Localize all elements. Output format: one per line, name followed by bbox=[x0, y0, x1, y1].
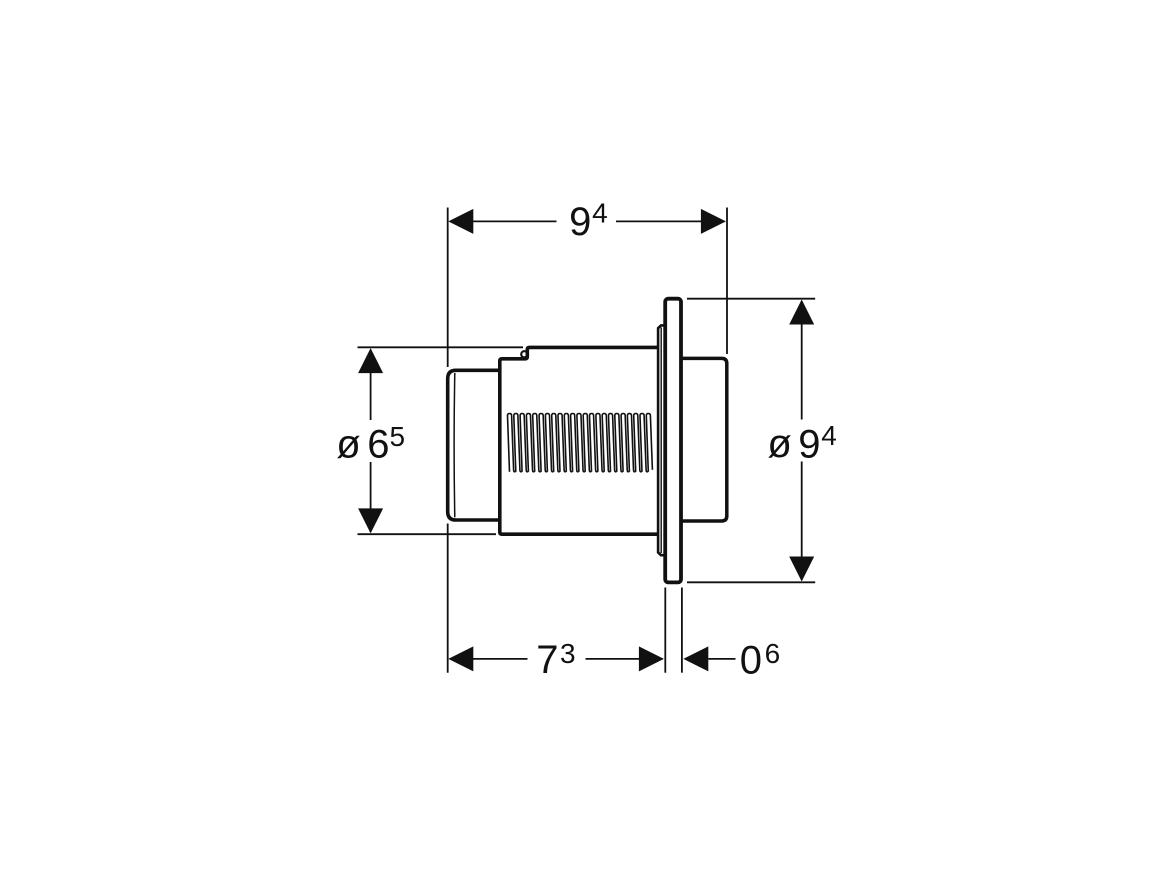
push button cap bbox=[448, 370, 500, 520]
svg-text:9: 9 bbox=[569, 200, 591, 244]
dim dia94 top extension line bbox=[687, 298, 815, 300]
dim 73 line bbox=[450, 658, 528, 660]
wall flange plate bbox=[665, 299, 681, 583]
svg-text:9: 9 bbox=[798, 422, 820, 466]
dim 94 left arrow bbox=[448, 209, 473, 234]
svg-text:6: 6 bbox=[765, 638, 781, 669]
seal gasket inner edge bbox=[660, 328, 662, 554]
button cap face edge bbox=[453, 373, 456, 517]
svg-text:4: 4 bbox=[821, 420, 837, 451]
dim dia65 top extension line bbox=[358, 346, 524, 348]
dim 73 left arrow bbox=[448, 646, 473, 671]
svg-text:ø: ø bbox=[336, 423, 360, 467]
dim 73 right arrow bbox=[639, 646, 664, 671]
svg-text:3: 3 bbox=[560, 638, 576, 669]
dim 06 right extension line bbox=[681, 588, 683, 673]
dim dia65 down arrow bbox=[358, 508, 383, 533]
dim dia65 line bbox=[370, 350, 372, 420]
svg-text:4: 4 bbox=[592, 198, 608, 229]
dim 94 left extension line bbox=[447, 208, 449, 368]
svg-text:ø: ø bbox=[767, 422, 791, 466]
valve body bbox=[500, 347, 658, 534]
dim 94 right arrow bbox=[701, 209, 726, 234]
dim dia94 line bbox=[801, 301, 803, 420]
dim dia65 up arrow bbox=[358, 348, 383, 373]
dim dia94 down arrow bbox=[789, 557, 814, 582]
dim 06 arrow bbox=[683, 646, 708, 671]
svg-text:6: 6 bbox=[367, 423, 389, 467]
retaining ring detail bbox=[521, 351, 527, 357]
svg-text:5: 5 bbox=[390, 421, 406, 452]
cover plate bbox=[681, 358, 727, 521]
dim dia65 bottom extension line bbox=[358, 533, 497, 535]
dim 73 right extension line bbox=[664, 588, 666, 673]
seal gasket bbox=[658, 325, 664, 555]
thread hatching bbox=[508, 414, 653, 472]
dim 06 tail line bbox=[708, 658, 735, 660]
dim 73 left extension line bbox=[447, 524, 449, 673]
svg-text:7: 7 bbox=[536, 638, 558, 682]
dim dia94 bottom extension line bbox=[687, 581, 815, 583]
dim dia94 up arrow bbox=[789, 300, 814, 325]
dim 94 line bbox=[450, 220, 557, 222]
svg-text:0: 0 bbox=[740, 638, 762, 682]
dim 94 right extension line bbox=[726, 208, 728, 355]
